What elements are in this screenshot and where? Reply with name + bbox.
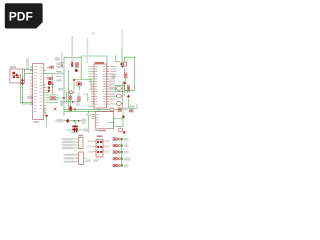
wire vertical rail left <box>63 58 65 117</box>
wire right green loop <box>124 57 134 90</box>
IC1 FT232RL <box>33 64 44 120</box>
wire +5V top rail <box>64 56 81 58</box>
wire ic3 left <box>88 110 90 127</box>
IC1 left pins <box>30 67 33 104</box>
resistor R4 horizontal <box>46 66 53 68</box>
IC2 right net label boxes <box>109 80 115 100</box>
switch S1 reset loop <box>108 119 125 134</box>
LED L4 on rail <box>110 108 118 111</box>
wire to label row <box>44 73 57 75</box>
JP2 labels <box>64 154 77 163</box>
resistor R9 vertical <box>127 85 129 92</box>
label right of IC1 bottom <box>56 119 61 122</box>
label right row73 <box>57 72 64 74</box>
label top right of IC1 row2 <box>56 66 64 68</box>
capacitor CX1 <box>69 96 72 99</box>
wire gnd down left B <box>23 70 33 105</box>
label X1 <box>10 66 16 68</box>
label rows left <box>111 74 115 80</box>
node junction J5 <box>74 109 76 111</box>
LED L3 <box>117 102 122 106</box>
capacitor CX2 <box>78 97 81 101</box>
wire gnd rail 2 <box>64 110 114 112</box>
label GND crystal <box>60 100 67 103</box>
label right row80 <box>56 79 62 82</box>
resistor R6 vertical <box>124 73 127 78</box>
wire crystal net <box>67 92 80 109</box>
wire aref drop <box>121 49 123 62</box>
label mid right of IC1 <box>60 103 64 106</box>
node junction J3 <box>63 97 65 99</box>
resistor RN2 vertical tall <box>71 36 73 67</box>
JP2 right labels <box>87 159 99 162</box>
label under CX2 <box>76 103 80 105</box>
wire crystal top loop <box>81 56 107 80</box>
switch S2 loop <box>116 85 125 91</box>
wire cap drop <box>52 74 54 95</box>
net label streak XTAL <box>87 38 89 63</box>
wire transistor base <box>116 55 120 62</box>
label top right of IC1 row1 <box>56 63 64 65</box>
IC1 right pins green wires <box>44 95 59 116</box>
wire reset line <box>70 120 85 122</box>
capacitor C1 polarized <box>33 104 36 110</box>
wire gnd rail 1 <box>64 108 114 110</box>
resistor RA2 <box>113 144 129 147</box>
ICSP labels right <box>104 140 109 153</box>
diode D4 on wire <box>21 79 24 85</box>
PDF badge <box>5 3 43 28</box>
resistor RA4 <box>113 157 131 160</box>
label crystal <box>58 88 63 91</box>
label right mid <box>130 105 135 107</box>
JP1 labels <box>62 138 76 149</box>
label RESET row <box>57 119 63 122</box>
crystal Q1 loop <box>73 79 91 91</box>
label right of R8 <box>123 107 128 110</box>
JP1 stubs <box>75 139 78 148</box>
crystal Y2 oval <box>67 91 75 94</box>
wire led rails <box>121 82 124 110</box>
IC2 ATmega328 <box>94 62 107 108</box>
wire down right of IC1 <box>46 117 48 126</box>
fuse F1 <box>26 59 28 69</box>
wire chain bus <box>121 139 123 165</box>
connector ICSP <box>96 135 103 157</box>
capacitor C5 bottom <box>66 128 99 132</box>
capacitor C6 on rail <box>69 106 72 110</box>
connector JP2 analog header <box>79 152 84 165</box>
wire xtal gnd L <box>84 94 88 102</box>
label IC1 value <box>33 121 39 123</box>
label GND small <box>27 96 33 99</box>
LED L1 <box>117 87 122 91</box>
IC2 right net labels text <box>111 66 117 77</box>
wire fuse drop <box>27 68 29 70</box>
IC3 left pins <box>92 115 96 119</box>
net label AREF vertical text <box>122 30 123 49</box>
diode marker <box>127 95 130 98</box>
label tiny left2 <box>82 121 85 123</box>
ICSP stubs <box>93 141 106 152</box>
IC2 right wire stubs <box>109 74 116 104</box>
wire vertical rail 2 <box>68 70 70 111</box>
wire jack to IC1 pin GND <box>25 73 33 75</box>
resistor R5 horizontal <box>50 97 56 100</box>
power jack X1 <box>10 69 25 83</box>
IC2 left wire stubs <box>88 67 99 112</box>
wire usb shield corner <box>44 93 64 99</box>
resistor R3 vertical <box>76 62 79 67</box>
resistor X mark <box>54 108 57 111</box>
node junction J4 <box>72 101 74 103</box>
resistor RN1 vertical <box>61 52 63 67</box>
IC2 left pins <box>91 84 94 104</box>
capacitor C4 <box>71 121 78 133</box>
ICSP labels left <box>87 140 92 153</box>
label net name left <box>55 58 60 61</box>
LED L2 <box>117 94 122 98</box>
connector JP1 power header <box>78 135 83 149</box>
svg-text:PDF: PDF <box>9 10 33 24</box>
diode D5 diamond <box>122 115 125 118</box>
node diamonds right of IC1 <box>45 86 50 117</box>
IC3 op-amp <box>95 112 114 132</box>
diode D3 diamond <box>123 81 126 84</box>
IC1 right pins red <box>44 71 46 113</box>
label small left of IC3 <box>87 113 91 116</box>
net streak below <box>88 127 90 133</box>
node junction J1 <box>75 69 78 72</box>
wire gnd down left A <box>21 74 33 103</box>
resistor RA3 <box>113 151 129 154</box>
resistor R8 <box>118 108 122 111</box>
label text column right of IC1 <box>56 71 61 77</box>
wire R8 down <box>122 111 124 118</box>
node junction J2 <box>74 120 80 122</box>
transistor T2 <box>121 62 127 68</box>
wire jack to IC1 pin VCC <box>25 69 33 71</box>
resistor RA1 <box>113 138 129 141</box>
IC2 right pins <box>107 67 110 105</box>
capacitor C2 pair <box>48 77 54 85</box>
diode D2 <box>63 119 70 123</box>
wire bottom right corner <box>125 99 138 109</box>
resistor RA5 <box>113 164 129 167</box>
resistor R10 horizontal <box>130 110 134 112</box>
JP2 stubs <box>77 155 87 162</box>
label tiny top <box>92 33 96 35</box>
label right of reset <box>82 119 86 122</box>
